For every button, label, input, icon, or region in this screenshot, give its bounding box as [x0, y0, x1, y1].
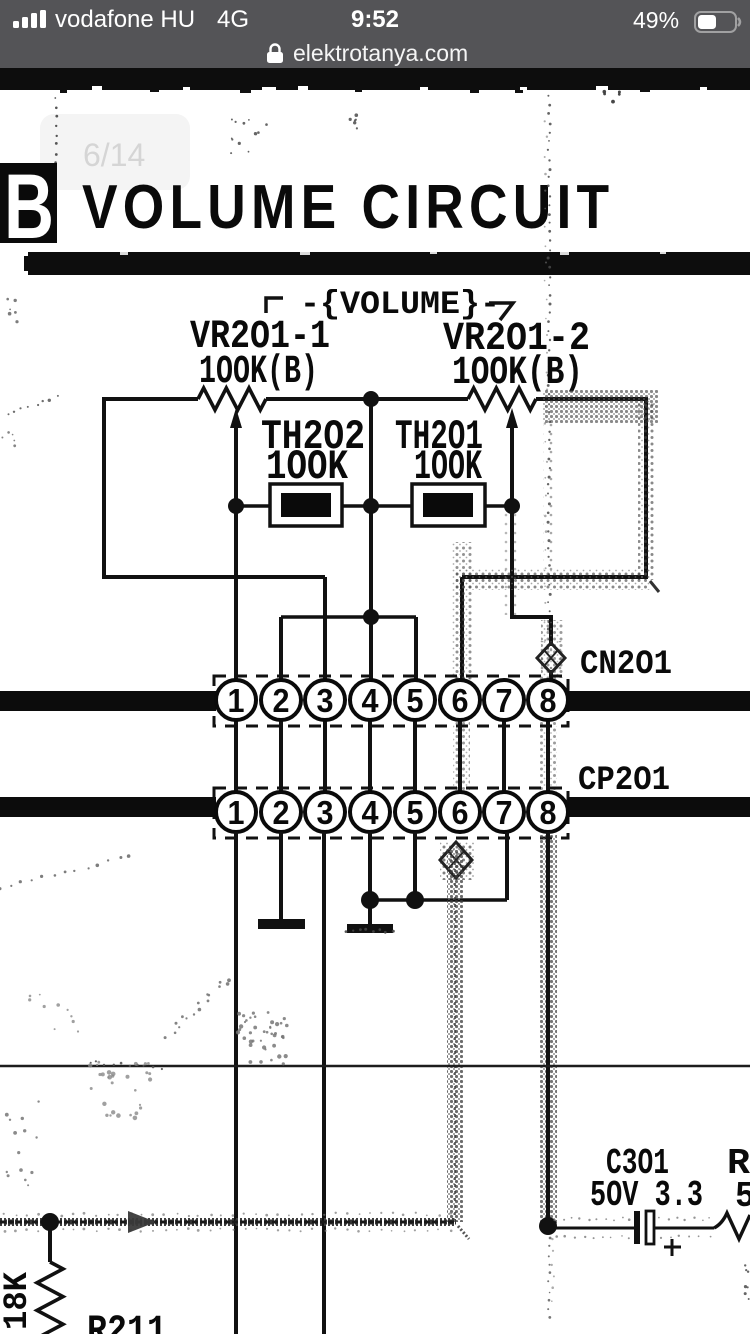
svg-text:6: 6 [452, 794, 469, 831]
svg-text:VOLUME CIRCUIT: VOLUME CIRCUIT [82, 173, 609, 242]
svg-text:CP2O1: CP2O1 [578, 762, 670, 800]
svg-text:18K: 18K [0, 1271, 37, 1330]
svg-text:5: 5 [407, 682, 424, 719]
svg-text:6: 6 [452, 682, 469, 719]
svg-text:7: 7 [496, 682, 513, 719]
svg-text:4: 4 [362, 682, 380, 719]
svg-text:2: 2 [273, 794, 290, 831]
svg-text:B: B [4, 156, 54, 258]
svg-text:5O: 5O [735, 1176, 750, 1217]
svg-text:6/14: 6/14 [83, 137, 145, 173]
svg-text:8: 8 [540, 794, 557, 831]
svg-text:CN2O1: CN2O1 [580, 646, 672, 684]
svg-text:1: 1 [228, 794, 245, 831]
svg-text:4: 4 [362, 794, 380, 831]
svg-text:3: 3 [317, 794, 334, 831]
svg-text:8: 8 [540, 682, 557, 719]
svg-text:R211: R211 [87, 1310, 167, 1334]
svg-text:1OOK(B): 1OOK(B) [199, 350, 318, 395]
svg-text:5: 5 [407, 794, 424, 831]
svg-text:3: 3 [317, 682, 334, 719]
svg-text:2: 2 [273, 682, 290, 719]
svg-text:1: 1 [228, 682, 245, 719]
svg-text:7: 7 [496, 794, 513, 831]
